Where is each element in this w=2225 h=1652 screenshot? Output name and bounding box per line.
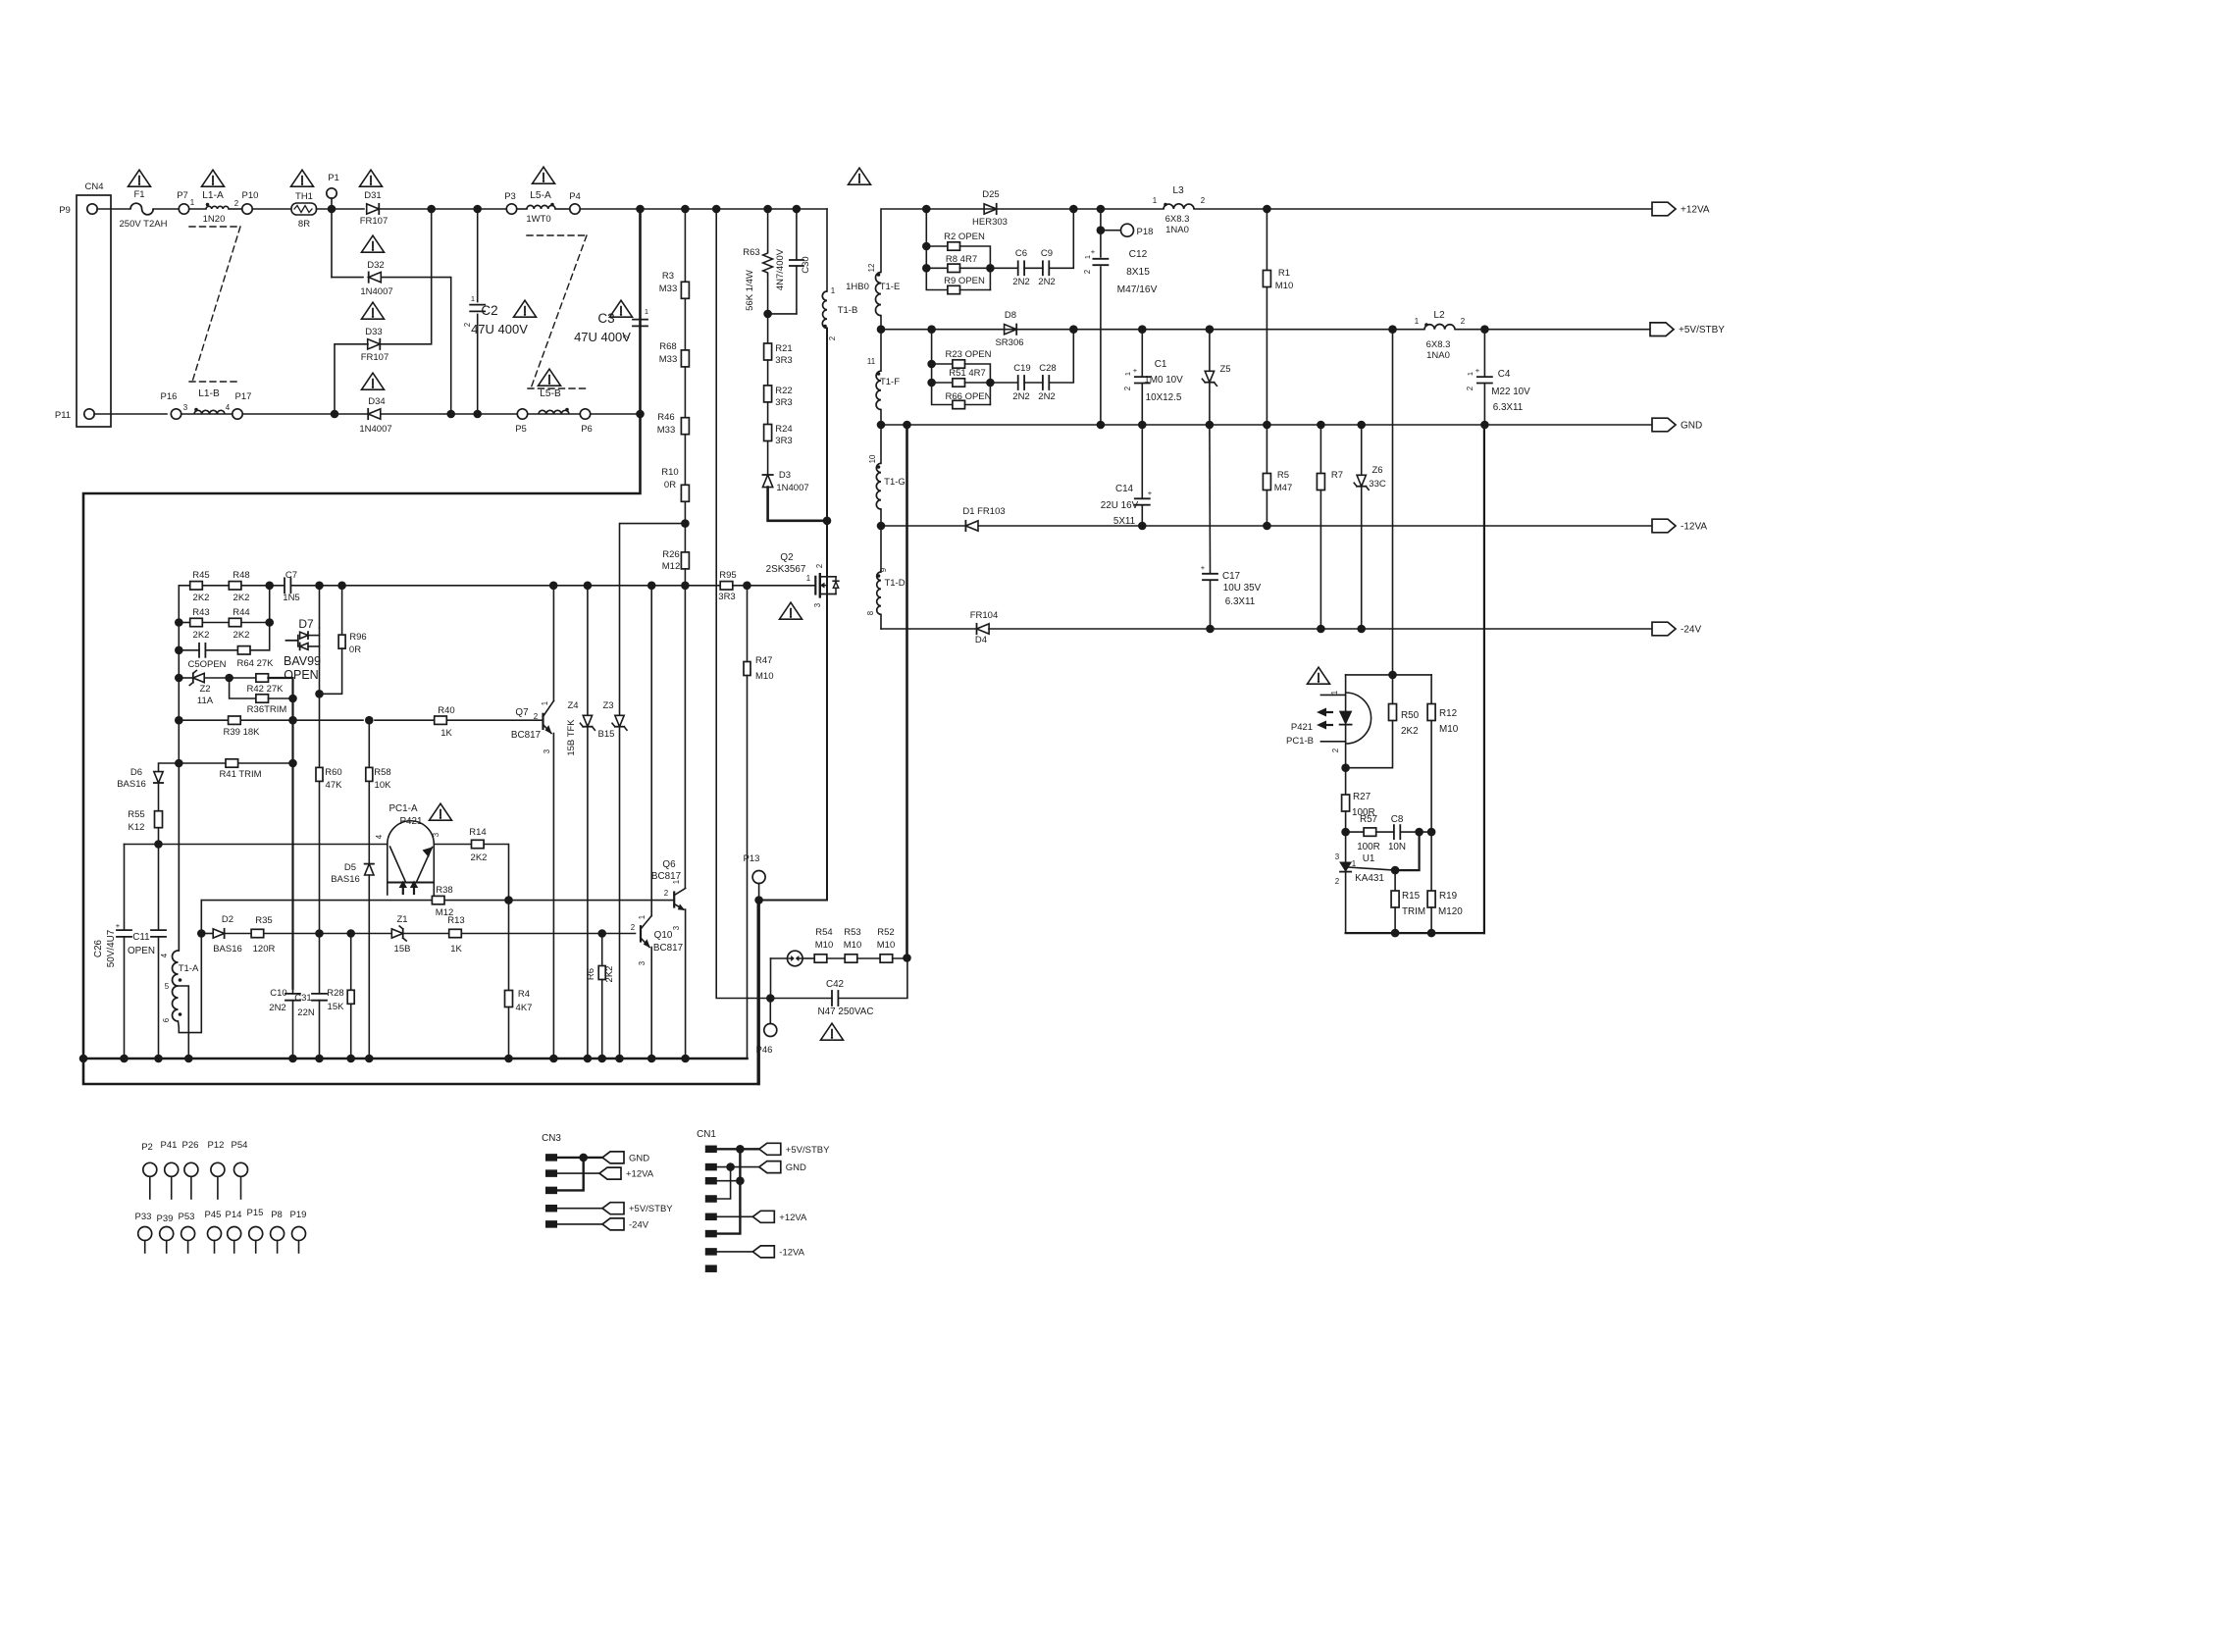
resistor R5 M47 xyxy=(1263,474,1270,490)
D6 R55 branch from R41 row xyxy=(159,763,180,771)
svg-text:4: 4 xyxy=(226,403,231,412)
inductor L5-B xyxy=(539,410,569,414)
svg-text:D8: D8 xyxy=(1005,310,1016,321)
svg-text:+: + xyxy=(116,921,121,930)
junction D31-D33 column xyxy=(427,205,436,214)
wire D7 node down to R60 xyxy=(319,694,321,766)
svg-text:11: 11 xyxy=(867,357,875,366)
svg-text:R50: R50 xyxy=(1401,710,1420,721)
warning triangle at PC1-A xyxy=(430,803,452,820)
svg-text:BAS16: BAS16 xyxy=(331,874,360,885)
junction C2 top xyxy=(473,205,482,214)
wire KA431 reference tap xyxy=(1349,867,1396,870)
svg-text:T1-B: T1-B xyxy=(838,305,858,316)
svg-text:Q10: Q10 xyxy=(654,930,673,941)
svg-text:L5-A: L5-A xyxy=(530,190,551,201)
wire T1-G winding xyxy=(880,425,882,463)
svg-text:2: 2 xyxy=(1466,387,1475,390)
svg-text:P421: P421 xyxy=(1291,722,1313,733)
diode D8 SR306 xyxy=(1005,325,1017,335)
junction R1 bottom R5 top xyxy=(1263,421,1271,430)
CN1 pin square 4 xyxy=(705,1195,717,1203)
wire P3 to L5-A xyxy=(517,208,527,210)
spark gap arrester xyxy=(788,951,803,966)
resistor R22 3R3 xyxy=(764,386,772,402)
svg-text:R14: R14 xyxy=(469,827,486,838)
svg-text:T1-A: T1-A xyxy=(179,963,199,974)
zener Z5 xyxy=(1209,330,1211,370)
resistor R96 0R xyxy=(341,586,343,634)
wire R54 to R53 xyxy=(827,957,845,959)
svg-text:D32: D32 xyxy=(367,260,384,271)
svg-text:2: 2 xyxy=(622,335,631,338)
wire PC1-A pin3 to R14 xyxy=(434,844,471,846)
transistor Q10 BC817 xyxy=(640,926,642,941)
outer loop from C3 column xyxy=(83,209,641,1058)
wire Q10 emitter to bottom rail xyxy=(650,948,652,1059)
junction D33 leg at bottom rail xyxy=(331,410,339,419)
svg-text:4K7: 4K7 xyxy=(516,1003,533,1013)
svg-text:2K2: 2K2 xyxy=(471,852,488,863)
wire D33 left leg to bottom rail xyxy=(335,344,368,414)
svg-text:R40: R40 xyxy=(438,705,454,716)
svg-text:D3: D3 xyxy=(779,470,791,481)
svg-text:1: 1 xyxy=(645,307,648,316)
capacitor C30 4N7/400V xyxy=(796,209,798,260)
zener Z4 15B TFK xyxy=(587,586,589,714)
svg-text:D33: D33 xyxy=(365,327,382,337)
wire D6 to R55 xyxy=(158,783,160,811)
svg-text:R64 27K: R64 27K xyxy=(237,658,275,669)
junction C17 bottom on -24V xyxy=(1206,625,1215,634)
svg-text:2N2: 2N2 xyxy=(1038,391,1055,402)
wire R22 to R24 xyxy=(767,402,769,425)
svg-text:3: 3 xyxy=(432,832,440,837)
junction R63 C30 xyxy=(763,310,772,319)
svg-text:M10: M10 xyxy=(844,940,861,951)
svg-text:2K2: 2K2 xyxy=(604,966,615,983)
svg-text:R19: R19 xyxy=(1439,891,1458,902)
dashed coupling symbol L5 xyxy=(527,234,587,236)
resistor R4 4K7 xyxy=(505,991,513,1007)
svg-text:R96: R96 xyxy=(349,632,366,643)
svg-text:-12VA: -12VA xyxy=(779,1247,804,1258)
junction R44 right xyxy=(265,618,274,627)
svg-text:M10: M10 xyxy=(1275,281,1293,291)
pin P53 xyxy=(181,1227,195,1241)
resistor R26 M12 xyxy=(681,552,689,569)
diode D33 FR107 xyxy=(368,339,381,349)
pin P9 xyxy=(87,204,97,214)
svg-text:TH1: TH1 xyxy=(295,191,313,202)
junction R23 block left xyxy=(927,325,936,334)
pin P17 xyxy=(233,409,242,419)
svg-text:-24V: -24V xyxy=(629,1219,649,1230)
svg-text:D25: D25 xyxy=(982,189,999,200)
junction Z2 row left xyxy=(175,674,183,683)
svg-text:56K 1/4W: 56K 1/4W xyxy=(745,270,755,311)
junction C28 return xyxy=(1069,325,1078,334)
wire R51 right to C19 xyxy=(964,382,1017,384)
resistor R19 M120 xyxy=(1430,832,1432,891)
wire R8 row xyxy=(926,267,948,269)
capacitor C9 2N2 xyxy=(1042,261,1044,275)
PC1-B top row xyxy=(1346,674,1432,676)
svg-text:2K2: 2K2 xyxy=(193,630,210,641)
svg-text:M10: M10 xyxy=(815,940,833,951)
CN1 pin square 1 xyxy=(705,1146,717,1154)
wire R60 to D2 row xyxy=(319,781,321,933)
svg-text:1: 1 xyxy=(190,198,194,207)
CN1 pin square 7 xyxy=(705,1248,717,1256)
svg-text:R66 OPEN: R66 OPEN xyxy=(946,391,992,402)
junction C1 top xyxy=(1138,325,1147,334)
wire Q2 source down to P13 node xyxy=(759,577,827,901)
pin P45 xyxy=(208,1227,222,1241)
diode D25 HER303 xyxy=(984,204,997,214)
wire R9 right xyxy=(959,289,990,291)
svg-text:R57: R57 xyxy=(1360,814,1377,825)
resistor R24 3R3 xyxy=(764,425,772,441)
junction R15 bottom xyxy=(1391,929,1400,938)
junction left loop bottom xyxy=(79,1055,88,1063)
junction R95 R47 node xyxy=(743,582,751,591)
junction Q10 emitter bottom xyxy=(647,1055,656,1063)
svg-text:R8 4R7: R8 4R7 xyxy=(946,254,977,265)
svg-text:P41: P41 xyxy=(161,1140,178,1151)
svg-text:2K2: 2K2 xyxy=(193,593,210,603)
capacitor C11 OPEN xyxy=(151,929,166,931)
svg-text:C42: C42 xyxy=(826,979,844,990)
CN3 pin square 1 xyxy=(545,1154,557,1162)
svg-text:1N20: 1N20 xyxy=(203,214,226,225)
CN1 pin square 6 xyxy=(705,1230,717,1238)
wire T1-A pin6 to D2 row junction xyxy=(179,934,202,1033)
svg-text:M33: M33 xyxy=(657,425,675,436)
svg-text:1NA0: 1NA0 xyxy=(1165,225,1189,235)
wire D31 to P3 xyxy=(379,208,506,210)
svg-text:+12VA: +12VA xyxy=(626,1169,654,1180)
capacitor C17 10U 35V polarized xyxy=(1203,573,1217,575)
wire top rail to R63 xyxy=(767,209,769,251)
resistor R45 2K2 xyxy=(190,582,203,590)
junction at R52 right xyxy=(903,954,911,962)
wire secondary +12VA row xyxy=(881,209,1164,273)
wire R42 row xyxy=(230,677,256,679)
svg-text:M47/16V: M47/16V xyxy=(1117,284,1158,295)
wire P4 to T1-B top xyxy=(581,208,828,210)
svg-text:C2: C2 xyxy=(481,303,497,318)
warning triangle below Q2 xyxy=(780,602,802,619)
capacitor C14 22U 16V polarized xyxy=(1141,425,1143,498)
primary-side bottom rail xyxy=(83,1058,748,1060)
wire P7 to L1-A xyxy=(189,208,206,210)
capacitor C31 22N xyxy=(319,934,321,994)
junction Z5 bottom C17 top xyxy=(1206,421,1215,430)
junction D32 leg at bottom rail xyxy=(446,410,455,419)
transformer winding T1-D xyxy=(877,572,881,614)
junction R6 bottom xyxy=(597,1055,606,1063)
pin P39 xyxy=(160,1227,174,1241)
svg-text:2: 2 xyxy=(1083,270,1092,274)
junction R10 bottom node xyxy=(681,519,690,528)
wire R4 column xyxy=(508,901,510,991)
diode D34 1N4007 xyxy=(368,409,381,419)
junction R8 row left xyxy=(922,264,931,273)
junction R38 row R4 column xyxy=(504,896,513,904)
resistor R54 M10 xyxy=(814,955,827,962)
svg-text:FR104: FR104 xyxy=(970,610,999,621)
CN3 tag GND xyxy=(602,1152,624,1163)
wire +5V row xyxy=(881,329,1424,331)
CN1 tag -12VA xyxy=(752,1246,774,1258)
resistor R6 2K2 xyxy=(601,934,603,965)
svg-text:250V T2AH: 250V T2AH xyxy=(120,219,168,230)
junction R51 row left xyxy=(927,379,936,387)
svg-text:4N7/400V: 4N7/400V xyxy=(775,248,786,290)
svg-text:P10: P10 xyxy=(242,190,259,201)
warning triangle at D34 xyxy=(362,373,385,389)
junction R27 KA431 node xyxy=(1341,828,1350,837)
resistor R53 M10 xyxy=(845,955,857,962)
svg-text:L1-A: L1-A xyxy=(202,190,224,201)
svg-text:FR107: FR107 xyxy=(361,352,389,363)
wire TH1 to D31 with P1 node xyxy=(317,208,365,210)
svg-text:D31: D31 xyxy=(364,190,381,201)
resistor R15 TRIM xyxy=(1391,891,1399,907)
junction Z2 R42 R36 xyxy=(225,674,233,683)
junction R28 top xyxy=(346,929,355,938)
junction C31 bottom xyxy=(315,1055,324,1063)
svg-text:R63: R63 xyxy=(743,247,759,258)
wire T1-D bottom to -24V row xyxy=(880,614,882,629)
svg-text:15B: 15B xyxy=(394,944,411,955)
transformer winding T1-G xyxy=(876,463,881,509)
wire R50 branch xyxy=(1392,675,1394,704)
resistor R10 0R xyxy=(681,485,689,501)
junction T1-G bottom xyxy=(877,522,886,531)
wire R51 row xyxy=(932,382,953,384)
svg-text:T1-G: T1-G xyxy=(884,477,906,488)
junction R1 top xyxy=(1263,205,1271,214)
svg-text:KA431: KA431 xyxy=(1355,873,1384,884)
svg-text:R27: R27 xyxy=(1353,792,1371,802)
inductor L1-A 1N20 xyxy=(206,206,229,209)
wire Q7 collector to gate row xyxy=(552,586,554,701)
capacitor C5 OPEN xyxy=(198,644,200,657)
opto drive row PC1-A pin4 xyxy=(125,844,388,846)
CN3 pin square 3 xyxy=(545,1187,557,1195)
svg-text:0R: 0R xyxy=(349,645,361,655)
svg-text:K12: K12 xyxy=(129,822,145,833)
wire P10 to TH1 xyxy=(253,208,292,210)
resistor R28 15K xyxy=(350,934,352,990)
Q10 collector column xyxy=(650,586,652,916)
R39 row xyxy=(179,719,228,721)
junction Q7 collector xyxy=(549,582,558,591)
svg-text:M33: M33 xyxy=(659,284,677,294)
svg-text:R39 18K: R39 18K xyxy=(224,727,261,738)
svg-text:2K2: 2K2 xyxy=(233,630,250,641)
svg-text:Z2: Z2 xyxy=(199,684,210,695)
optocoupler PC1-B P421 LED side xyxy=(1345,675,1347,711)
resistor R35 120R xyxy=(251,929,264,937)
svg-text:3: 3 xyxy=(543,749,551,753)
R38 row xyxy=(200,901,202,934)
svg-text:R22: R22 xyxy=(775,386,792,396)
zener Z3 B15 xyxy=(619,586,621,714)
svg-text:3: 3 xyxy=(183,403,188,412)
svg-text:T1-F: T1-F xyxy=(880,377,900,387)
wire R1 column xyxy=(1266,209,1268,271)
svg-text:22N: 22N xyxy=(297,1007,315,1018)
inductor L3 6X8.3 1NA0 xyxy=(1164,204,1194,209)
resistor R46 M33 xyxy=(681,418,689,435)
svg-text:P9: P9 xyxy=(59,205,71,216)
svg-text:5: 5 xyxy=(165,982,170,991)
svg-text:C6: C6 xyxy=(1015,248,1027,259)
svg-text:M10: M10 xyxy=(877,940,895,951)
inductor L2 6X8.3 1NA0 xyxy=(1424,325,1455,330)
svg-text:R15: R15 xyxy=(1402,891,1421,902)
-12VA row with D1 xyxy=(881,525,965,527)
connector CN4 xyxy=(77,195,111,427)
CN1 wire pin1 +5V/STBY xyxy=(717,1148,759,1150)
junction C12 top xyxy=(1097,205,1106,214)
svg-text:2: 2 xyxy=(1201,196,1205,205)
pin P54 xyxy=(234,1162,248,1176)
wire T1-B to drain node xyxy=(826,329,828,521)
svg-text:R43: R43 xyxy=(192,607,209,618)
svg-text:+: + xyxy=(1148,489,1153,497)
svg-text:M120: M120 xyxy=(1438,906,1463,917)
inductor L1-B xyxy=(194,410,225,414)
svg-text:1: 1 xyxy=(806,574,810,583)
warning triangle at TH1 xyxy=(291,170,314,186)
svg-text:CN1: CN1 xyxy=(697,1129,716,1140)
wire Q7 emitter to bottom rail xyxy=(552,734,554,1059)
wire R36 branch xyxy=(230,678,256,698)
svg-text:2N2: 2N2 xyxy=(1012,391,1029,402)
transistor Q2 2SK3567 MOSFET xyxy=(814,577,816,594)
junction Z4 column xyxy=(584,582,593,591)
junction R96 column xyxy=(337,582,346,591)
svg-text:D7: D7 xyxy=(298,617,314,631)
resistor R44 2K2 xyxy=(229,618,241,626)
svg-text:PC1-B: PC1-B xyxy=(1286,736,1314,747)
zener Z2 11A xyxy=(193,673,204,682)
svg-text:R41 TRIM: R41 TRIM xyxy=(219,769,261,780)
left rail of divider rows xyxy=(178,586,180,951)
svg-text:2K2: 2K2 xyxy=(1401,726,1419,737)
wire F1 to P7 xyxy=(153,208,179,210)
junction R8 C6 xyxy=(986,264,995,273)
resistor R64 27K xyxy=(237,646,250,654)
resistor R57 100R xyxy=(1364,828,1376,836)
svg-text:C8: C8 xyxy=(1391,814,1404,825)
junction R23 row left xyxy=(927,360,936,369)
svg-text:D6: D6 xyxy=(130,767,142,778)
svg-text:6: 6 xyxy=(162,1017,171,1022)
resistor R39 18K xyxy=(229,716,241,724)
svg-text:6.3X11: 6.3X11 xyxy=(1493,402,1524,413)
vertical wire P1 node to D32 xyxy=(331,209,333,278)
pin P11 xyxy=(84,409,94,419)
resistor R41 TRIM xyxy=(226,759,238,767)
output tag GND xyxy=(1652,418,1676,432)
junction C31 top xyxy=(315,929,324,938)
shunt regulator U1 KA431 xyxy=(1345,832,1347,862)
pin P26 xyxy=(184,1162,198,1176)
wire R50 bottom to pin2 node xyxy=(1346,721,1393,768)
svg-text:R58: R58 xyxy=(374,767,390,778)
resistor R21 3R3 xyxy=(764,343,772,360)
wire R58 column xyxy=(368,720,370,767)
svg-text:R2 OPEN: R2 OPEN xyxy=(944,232,985,242)
wire R5 column xyxy=(1266,425,1268,474)
svg-text:3R3: 3R3 xyxy=(718,592,735,602)
svg-text:C14: C14 xyxy=(1115,484,1134,494)
wire L5-A to P4 xyxy=(555,208,569,210)
output tag +12VA xyxy=(1652,202,1676,216)
resistor R63 56K 1/4W zigzag xyxy=(763,251,773,275)
CN3 tag -24V xyxy=(602,1218,624,1230)
svg-text:3: 3 xyxy=(1335,852,1340,861)
svg-text:C17: C17 xyxy=(1222,571,1240,582)
bottom rail P11 to C3 with D34 xyxy=(94,413,167,415)
svg-text:6.3X11: 6.3X11 xyxy=(1225,596,1256,607)
junction R28 bottom xyxy=(346,1055,355,1063)
transformer winding T1-A xyxy=(178,763,180,951)
wire R23 right to column xyxy=(964,364,990,405)
svg-text:Z4: Z4 xyxy=(567,700,578,711)
junction opto drive row at R55 xyxy=(154,840,163,849)
junction Z3 bottom xyxy=(615,1055,624,1063)
pin P13 xyxy=(752,871,765,884)
junction D7 R96 node xyxy=(315,690,324,698)
junction R2 row left xyxy=(922,242,931,251)
resistor R14 2K2 xyxy=(472,840,485,848)
wire R57 row xyxy=(1346,831,1365,833)
pin P14 xyxy=(228,1227,241,1241)
junction C9 return xyxy=(1069,205,1078,214)
wire R2 block left column xyxy=(926,209,948,290)
svg-text:R47: R47 xyxy=(755,655,772,666)
svg-text:Z3: Z3 xyxy=(602,700,613,711)
junction Z5 top xyxy=(1206,325,1215,334)
svg-text:2: 2 xyxy=(828,336,837,340)
svg-text:M47: M47 xyxy=(1274,483,1292,493)
wire D3 to Q2 drain node xyxy=(768,488,827,521)
svg-text:OPEN: OPEN xyxy=(284,668,318,682)
wire P9 to F1 xyxy=(97,208,130,210)
svg-text:1: 1 xyxy=(1466,372,1475,376)
secondary return heavy vertical xyxy=(906,425,908,958)
pin P8 xyxy=(271,1227,285,1241)
warning triangle at C2 xyxy=(514,300,537,317)
capacitor C3 47U 400V xyxy=(640,209,642,317)
pin P12 xyxy=(211,1162,225,1176)
junction C3 column top xyxy=(636,205,645,214)
pin P1 xyxy=(327,188,336,198)
svg-text:C11: C11 xyxy=(132,932,150,943)
svg-text:GND: GND xyxy=(629,1153,649,1163)
svg-text:L2: L2 xyxy=(1433,310,1445,321)
junction C10 bottom xyxy=(288,1055,297,1063)
wire bottom rail up to R47 xyxy=(747,586,749,1058)
svg-text:+12VA: +12VA xyxy=(1681,205,1710,216)
svg-text:12: 12 xyxy=(867,264,876,273)
